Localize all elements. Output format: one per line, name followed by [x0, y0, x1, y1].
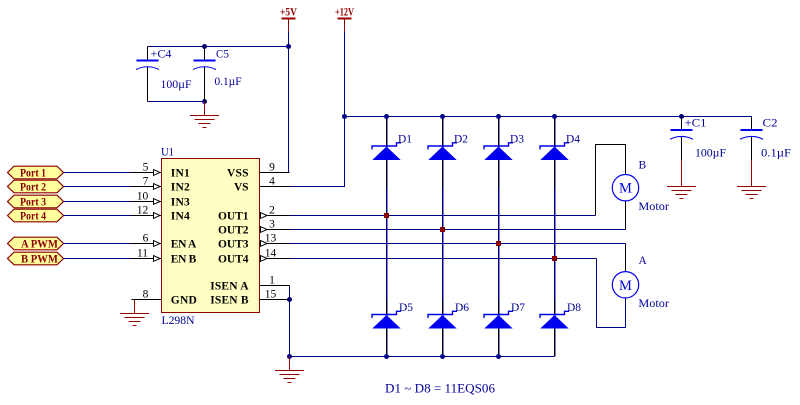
diode D4: [540, 143, 569, 160]
diode D6: [428, 311, 457, 328]
pin 8 (GND): [132, 289, 162, 301]
wire A PWM to chip: [64, 243, 132, 245]
svg-text:3: 3: [269, 219, 275, 231]
port A PWM: [8, 237, 64, 250]
junction C5 top: [202, 44, 207, 49]
junction bus at D3 column: [496, 114, 501, 119]
pin 2 (OUT1): [260, 205, 290, 217]
diode D3 pins: [498, 119, 500, 187]
motor B: [612, 175, 638, 201]
svg-text:VS: VS: [234, 181, 249, 193]
wire column D1/D5: [386, 117, 388, 357]
wire Port 2 to chip: [64, 186, 132, 188]
wire OUT2 (pin 3) to Motor B bottom: [290, 229, 626, 231]
svg-text:D4: D4: [566, 134, 580, 146]
diode D8 pins: [554, 301, 556, 357]
wire +12V bus (top): [345, 116, 752, 118]
svg-text:IN1: IN1: [171, 167, 190, 179]
junction bus at D4 column: [552, 114, 557, 119]
svg-text:4: 4: [269, 176, 275, 188]
svg-text:D3: D3: [510, 134, 524, 146]
diode D5 pins: [386, 301, 388, 357]
wire OUT3 (pin 13) to Motor A top: [290, 243, 626, 245]
junction ISEN A/B: [287, 297, 292, 302]
pin 4 (VS): [260, 176, 290, 188]
svg-text:GND: GND: [171, 294, 197, 306]
port Port 3: [8, 195, 64, 208]
junction at +5V rail: [286, 44, 291, 49]
junction bottom bus at D5: [384, 354, 389, 359]
capacitor C2: [751, 137, 753, 173]
wire B PWM to chip: [64, 258, 132, 260]
pin 9 (VSS): [260, 162, 290, 174]
svg-text:2: 2: [269, 205, 275, 217]
svg-text:IN3: IN3: [171, 196, 190, 208]
pin 6 (EN A): [132, 233, 162, 245]
svg-text:ISEN A: ISEN A: [210, 280, 249, 292]
junction C5 bottom: [202, 99, 207, 104]
wire bus corner to C2: [751, 117, 753, 130]
svg-text:IN2: IN2: [171, 181, 190, 193]
svg-text:D2: D2: [454, 134, 468, 146]
diode D1 pins: [386, 119, 388, 187]
wire GND pin 8: [135, 299, 162, 301]
svg-text:12: 12: [137, 205, 149, 217]
svg-text:Port 1: Port 1: [20, 168, 46, 180]
wire ISEN A (pin 1) down: [289, 286, 291, 300]
diode D1: [372, 143, 401, 160]
svg-text:11: 11: [137, 248, 148, 260]
svg-text:+C4: +C4: [151, 49, 172, 61]
port Port 2: [8, 180, 64, 193]
pin 10 (IN3): [132, 191, 162, 203]
svg-text:OUT4: OUT4: [218, 253, 249, 265]
ground below C2: [737, 173, 766, 199]
svg-text:Port 4: Port 4: [20, 211, 46, 223]
wire +12V down to bus and VS pin 4: [290, 32, 345, 187]
diode D4 pins: [554, 119, 556, 187]
svg-text:C2: C2: [763, 118, 778, 130]
diode D2: [428, 143, 457, 160]
junction bottom bus at D7: [496, 354, 501, 359]
pin 11 (EN B): [132, 248, 162, 260]
svg-text:OUT1: OUT1: [218, 210, 249, 222]
svg-text:M: M: [619, 278, 632, 294]
svg-text:+C1: +C1: [685, 118, 707, 130]
junction OUT1/D1: [384, 213, 389, 218]
svg-text:IN4: IN4: [171, 210, 190, 222]
svg-text:D6: D6: [455, 302, 469, 314]
svg-text:0.1µF: 0.1µF: [215, 76, 242, 88]
wire column D3/D7: [498, 117, 500, 357]
ground at GND pin: [120, 300, 149, 326]
svg-text:A: A: [639, 255, 648, 267]
svg-text:8: 8: [143, 289, 149, 301]
junction OUT3/D3: [496, 241, 501, 246]
svg-text:Motor: Motor: [638, 201, 669, 213]
diode D6 pins: [442, 301, 444, 357]
svg-text:Port 3: Port 3: [20, 197, 46, 209]
svg-text:15: 15: [265, 289, 277, 301]
junction OUT2/D2: [440, 227, 445, 232]
junction OUT4/D4: [552, 256, 557, 261]
wire bottom bus: [290, 356, 555, 358]
svg-text:13: 13: [265, 233, 277, 245]
svg-text:OUT2: OUT2: [218, 224, 249, 236]
wire C4/C5 bottom rail: [148, 101, 205, 103]
wire +5V to VSS pin 9: [288, 32, 291, 173]
port Port 4: [8, 209, 64, 222]
wire Port 4 to chip: [64, 215, 132, 217]
svg-text:Motor: Motor: [638, 298, 669, 310]
junction bottom bus at D6: [440, 354, 445, 359]
svg-text:C5: C5: [216, 49, 229, 61]
pin 1 (ISEN A): [260, 275, 290, 287]
power +12V: [335, 5, 354, 32]
pin 7 (IN2): [132, 176, 162, 188]
svg-text:+12V: +12V: [335, 5, 354, 19]
svg-text:5: 5: [143, 162, 149, 174]
svg-text:1: 1: [269, 275, 275, 287]
svg-text:+5V: +5V: [280, 5, 297, 19]
pin 12 (IN4): [132, 205, 162, 217]
svg-text:D1: D1: [398, 134, 412, 146]
svg-text:100µF: 100µF: [161, 79, 192, 91]
junction bus at C1: [679, 114, 684, 119]
svg-text:A PWM: A PWM: [21, 239, 58, 251]
capacitor C4: [147, 47, 149, 102]
svg-text:M: M: [619, 181, 632, 197]
svg-text:100µF: 100µF: [695, 148, 726, 160]
svg-text:Port 2: Port 2: [20, 182, 46, 194]
junction bus at D2 column: [440, 114, 445, 119]
svg-text:9: 9: [269, 162, 275, 174]
svg-text:D1 ~ D8 = 11EQS06: D1 ~ D8 = 11EQS06: [385, 382, 495, 396]
motor A: [612, 272, 638, 298]
capacitor C1: [681, 117, 683, 173]
junction bus at D1 column: [384, 114, 389, 119]
svg-text:L298N: L298N: [162, 315, 196, 327]
svg-text:7: 7: [143, 176, 149, 188]
svg-text:6: 6: [143, 233, 149, 245]
ground below C1: [667, 173, 696, 199]
port Port 1: [8, 166, 64, 179]
svg-text:0.1µF: 0.1µF: [761, 148, 791, 160]
wire column D4/D8: [554, 117, 556, 357]
diode D7 pins: [498, 301, 500, 357]
svg-text:EN B: EN B: [171, 253, 197, 265]
pin 14 (OUT4): [260, 248, 290, 260]
ground below bottom bus: [275, 357, 304, 383]
svg-text:ISEN B: ISEN B: [210, 294, 249, 306]
ground below C5: [190, 102, 219, 128]
svg-text:EN A: EN A: [171, 238, 197, 250]
pin 5 (IN1): [132, 162, 162, 174]
wire ISEN node to bottom bus: [289, 300, 291, 357]
diode D8: [540, 311, 569, 328]
capacitor C5: [204, 47, 206, 102]
svg-text:B: B: [639, 160, 647, 172]
wire Port 3 to chip: [64, 201, 132, 203]
IC U1 L298N body: [162, 159, 260, 313]
pin 15 (ISEN B): [260, 289, 290, 301]
diode D2 pins: [442, 119, 444, 187]
power +5V: [280, 5, 297, 32]
svg-text:B PWM: B PWM: [21, 254, 58, 266]
port B PWM: [8, 252, 64, 265]
svg-text:D7: D7: [511, 302, 525, 314]
wire OUT1 (pin 2) to Motor B top: [290, 215, 596, 217]
diode D7: [484, 311, 513, 328]
svg-text:D8: D8: [567, 302, 581, 314]
wire column D2/D6: [442, 117, 444, 357]
svg-text:10: 10: [137, 191, 149, 203]
wire OUT4 (pin 14) to Motor A bottom: [290, 258, 597, 260]
svg-text:U1: U1: [161, 147, 174, 159]
wire Port 1 to chip: [64, 172, 132, 174]
svg-text:VSS: VSS: [227, 167, 249, 179]
svg-text:14: 14: [265, 248, 277, 260]
pin 3 (OUT2): [260, 219, 290, 231]
diode D5: [372, 311, 401, 328]
junction bus at +12V: [342, 114, 347, 119]
svg-text:D5: D5: [399, 302, 413, 314]
junction bottom bus left: [287, 354, 292, 359]
diode D3: [484, 143, 513, 160]
wire C4/C5 top rail: [148, 46, 289, 48]
pin 13 (OUT3): [260, 233, 290, 245]
svg-text:OUT3: OUT3: [218, 238, 249, 250]
